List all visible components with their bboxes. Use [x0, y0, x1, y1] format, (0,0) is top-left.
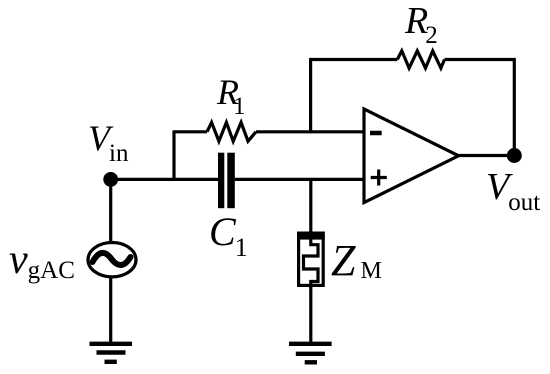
ground (left, under source) — [90, 344, 133, 362]
ground (right, under ZM) — [289, 344, 332, 363]
wire main horizontal C1 to op-amp plus input — [235, 178, 364, 181]
wire R1 line left segment — [173, 130, 208, 133]
wire riser from main line up to R1 line — [172, 132, 175, 181]
op-amp plus sign — [371, 170, 387, 186]
wire R2 top left segment — [309, 58, 397, 61]
op-amp U1 triangle — [364, 109, 459, 203]
wire R2 top right segment — [445, 58, 516, 61]
wire Vin node down to AC source — [109, 179, 112, 243]
wire op-amp output — [459, 154, 515, 157]
wire R1 line right segment to op-amp minus input — [256, 130, 364, 133]
node Vout (junction dot) — [507, 148, 522, 163]
AC source VgAC — [88, 243, 136, 277]
wire main horizontal Vin to C1 left plate — [111, 178, 218, 181]
wire AC source to ground — [109, 277, 112, 344]
node Vin (junction dot) — [103, 172, 118, 187]
capacitor C1 — [218, 153, 235, 209]
wire R2 left vertical drop to minus line — [309, 60, 312, 134]
wire memristor to ground — [309, 286, 312, 344]
wire R2 right vertical drop to output node — [513, 60, 516, 156]
resistor R1 — [207, 122, 256, 141]
memristor ZM — [297, 232, 325, 289]
op-amp minus sign — [370, 131, 382, 136]
wire ZM vertical from main line down to memristor — [309, 179, 312, 232]
resistor R2 — [397, 51, 444, 68]
